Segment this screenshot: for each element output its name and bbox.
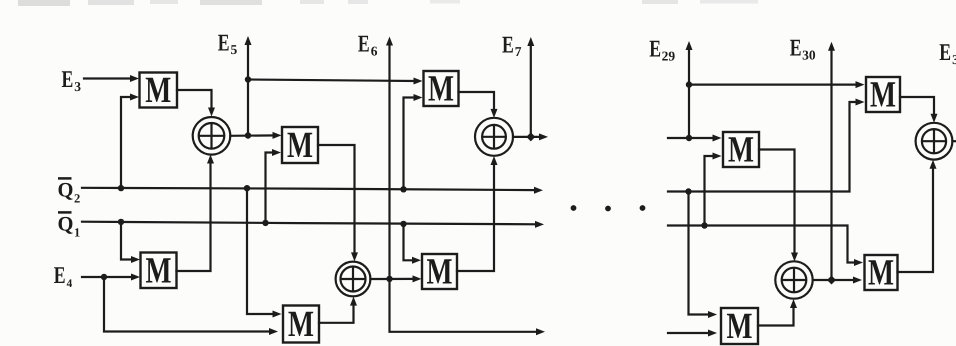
- ellipsis dot 3: [640, 205, 646, 211]
- wire E30 vertical: [828, 42, 835, 280]
- wire E29 feed to M9: [689, 81, 865, 88]
- wire A3 output E7, node E7 junction: [513, 132, 548, 141]
- wire Q-bar-2 bus: [82, 187, 543, 194]
- adder A3: [475, 118, 513, 156]
- svg-text:E6: E6: [358, 32, 378, 59]
- svg-text:M: M: [146, 250, 172, 291]
- label E31 (clipped at edge): [939, 40, 956, 67]
- svg-text:M: M: [870, 75, 896, 116]
- svg-text:M: M: [288, 304, 314, 345]
- label Q-bar-1: [58, 212, 81, 239]
- svg-text:E5: E5: [218, 30, 238, 57]
- wire Q-bar-1 tap to M2, node on Q-bar-1: [118, 219, 140, 263]
- svg-text:E3: E3: [939, 40, 956, 67]
- svg-text:Q2: Q2: [58, 180, 81, 206]
- label E7: [502, 32, 522, 59]
- multiplier M10: [723, 130, 759, 171]
- multiplier M4: [283, 304, 319, 345]
- wire E5 feed to M5: [248, 78, 423, 85]
- wire Q-bar-2 tap to M12: [689, 192, 718, 319]
- svg-text:Q1: Q1: [58, 214, 81, 240]
- svg-text:M: M: [728, 130, 754, 171]
- multiplier M3: [282, 125, 318, 166]
- svg-text:M: M: [427, 252, 453, 293]
- label E29: [649, 37, 675, 64]
- svg-text:M: M: [727, 306, 753, 346]
- wire A2 output to M7, node E6: [370, 275, 421, 282]
- label E6: [358, 32, 378, 59]
- wire Q-bar-1 tap to M10: [705, 153, 722, 226]
- adder A1: [193, 117, 231, 155]
- wire Q-bar-1 tap to M7, node on Q-bar-1: [400, 221, 421, 264]
- wire E6 feedback bus: [390, 279, 546, 335]
- wire M5 output to adder A3: [459, 92, 498, 118]
- wire M3 output to adder A2: [318, 145, 358, 261]
- wire M9 output to adder A4: [900, 97, 938, 123]
- wire M2 output to adder A1: [177, 155, 215, 272]
- svg-text:M: M: [428, 69, 454, 110]
- label E5: [218, 30, 238, 57]
- svg-text:E3: E3: [62, 67, 82, 94]
- wire E29 vertical, node E29 feed: [686, 41, 693, 138]
- wire M10 output to adder A5: [759, 150, 798, 262]
- wire A4 output clipped at edge: [952, 140, 956, 142]
- label Q-bar-2: [58, 178, 81, 205]
- wire E5 vertical with node at E5 feed: [245, 36, 252, 136]
- multiplier M1: [140, 70, 178, 111]
- wire A5 output E30 to M11, node E30 junction: [813, 276, 862, 285]
- wire Q-bar-2 tap to M5, node on Q-bar-2: [400, 94, 422, 193]
- wire M11 output to adder A4: [898, 160, 937, 272]
- adder A5: [775, 261, 812, 298]
- multiplier M12: [721, 306, 758, 346]
- wire M4 output to adder A2: [319, 297, 357, 323]
- svg-text:E30: E30: [790, 36, 816, 63]
- wire E4 feedback to M4: [104, 277, 278, 335]
- wire M7 output to adder A3: [457, 156, 498, 271]
- svg-text:E29: E29: [649, 37, 675, 64]
- wire M12 output to adder A5: [758, 299, 797, 326]
- wire Q-bar-2 bus right section into M9, node on Q-bar-2: [668, 99, 865, 195]
- wire E6 vertical: [386, 37, 393, 279]
- multiplier M9: [866, 75, 900, 116]
- label E30: [790, 36, 816, 63]
- wire Q-bar-2 tap to M4, node on Q-bar-2: [244, 185, 282, 318]
- multiplier M11: [865, 253, 898, 294]
- wire E4 input to M2, node E4 tap: [82, 274, 140, 281]
- multiplier M7: [422, 252, 457, 293]
- wire E3 input to M1: [84, 75, 139, 82]
- multiplier M5: [424, 69, 459, 110]
- wire A1 output to M3, node E5: [230, 132, 281, 139]
- wire E29 input to M10, node E29: [668, 135, 722, 142]
- multiplier M2: [141, 250, 177, 291]
- svg-text:M: M: [868, 253, 894, 294]
- ellipsis dot 2: [605, 206, 611, 212]
- wire Q-bar-1 tap to M3, node on Q-bar-1: [262, 149, 281, 226]
- svg-text:E4: E4: [54, 263, 73, 290]
- svg-text:M: M: [145, 70, 171, 111]
- wire E28 input to M12: [668, 330, 717, 337]
- wire M1 output to adder A1: [177, 90, 215, 117]
- adder A4: [916, 123, 953, 160]
- ellipsis dot 1: [571, 205, 577, 211]
- adder A2: [336, 262, 371, 297]
- label E4: [54, 263, 73, 290]
- label E3: [62, 67, 82, 94]
- svg-text:M: M: [287, 125, 313, 166]
- wire Q-bar-1 bus: [82, 221, 544, 228]
- svg-text:E7: E7: [502, 32, 522, 59]
- wire Q-bar-1 bus right section into M11, node on Q-bar-1: [668, 222, 863, 266]
- wire E7 vertical: [527, 37, 534, 137]
- wire Q-bar-2 tap to M1, node on Q-bar-2: [118, 94, 139, 192]
